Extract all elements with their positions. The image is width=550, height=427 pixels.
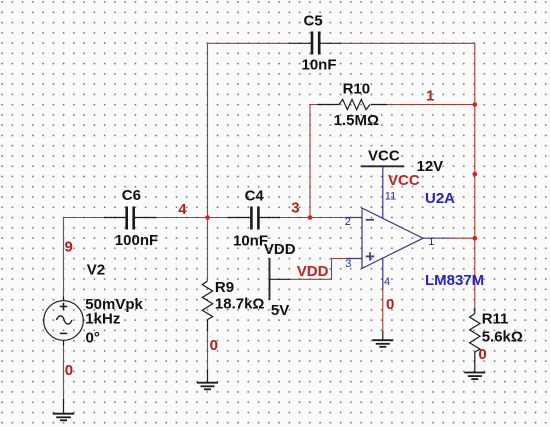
svg-text:R10: R10 [343,80,371,97]
VDD power symbol [269,258,271,300]
ground under R11 [464,373,485,380]
resistor R9 [202,218,212,332]
svg-text:VDD: VDD [264,241,296,258]
svg-text:0: 0 [386,296,394,313]
wire C4 to op-amp minus input [280,217,346,219]
wire R9 bottom to ground [207,331,209,370]
ground under R9 [197,370,218,390]
junction at op-amp output [473,236,478,241]
svg-text:C6: C6 [122,187,141,204]
ground under op-amp pin4 [372,331,393,347]
svg-text:V2: V2 [87,261,105,278]
capacitor C5 [289,32,341,55]
svg-text:R9: R9 [215,279,234,296]
svg-text:VDD: VDD [297,263,329,280]
wire C5 right to right rail down to R11 [341,43,475,307]
svg-text:3: 3 [291,199,299,216]
svg-text:2: 2 [345,216,351,228]
svg-text:0°: 0° [86,329,100,346]
capacitor C6 [104,207,156,230]
junction node 4 [205,215,210,220]
ground under V2 [53,399,74,420]
svg-text:10nF: 10nF [302,57,337,74]
svg-text:1: 1 [426,87,434,104]
capacitor C4 [228,207,280,230]
wire V2 bottom to ground [63,346,65,400]
wire top-left from node 4 up and over to C5 [208,43,290,217]
svg-text:1kHz: 1kHz [85,311,120,328]
svg-text:3: 3 [345,258,351,270]
wire R10 left leg down to node 3 [310,105,318,218]
op-amp U2A [346,167,453,290]
svg-text:R11: R11 [482,311,509,328]
svg-text:C4: C4 [245,187,265,204]
wire C6 to C4 through node 4 [156,217,228,219]
svg-text:C5: C5 [304,13,323,30]
VCC power symbol [361,165,404,167]
svg-text:5.6kΩ: 5.6kΩ [482,329,523,346]
junction node 3 [308,215,313,220]
svg-text:4: 4 [384,276,390,288]
svg-text:12V: 12V [417,158,444,175]
svg-text:4: 4 [178,201,187,218]
svg-text:0: 0 [478,346,486,363]
op-amp plus sign [366,252,374,260]
svg-text:LM837M: LM837M [425,272,484,289]
wire op-amp output to right rail [452,237,475,239]
svg-text:100nF: 100nF [115,232,158,249]
wire R10 right to right rail [387,104,475,106]
op-amp minus sign [366,219,374,221]
svg-text:1.5MΩ: 1.5MΩ [334,112,379,129]
svg-text:9: 9 [65,239,73,256]
svg-text:0: 0 [210,337,218,354]
svg-text:5V: 5V [271,302,289,319]
svg-text:U2A: U2A [425,190,455,207]
svg-text:VCC: VCC [388,172,420,189]
resistor R11 [470,308,480,373]
wire VDD to op-amp plus input [290,259,346,280]
wire V2 top up and right to C6 [64,218,105,297]
svg-text:0: 0 [65,362,73,379]
svg-text:18.7kΩ: 18.7kΩ [215,296,265,313]
junction node 1 at R10 [473,102,478,107]
svg-text:1: 1 [428,236,434,248]
source V2 [44,297,84,346]
svg-text:10nF: 10nF [233,233,268,250]
svg-text:11: 11 [385,191,396,203]
resistor R10 [318,99,388,109]
wire op-amp pin4 down [382,289,384,331]
junction right rail mid [473,172,478,177]
svg-text:VCC: VCC [368,147,400,164]
